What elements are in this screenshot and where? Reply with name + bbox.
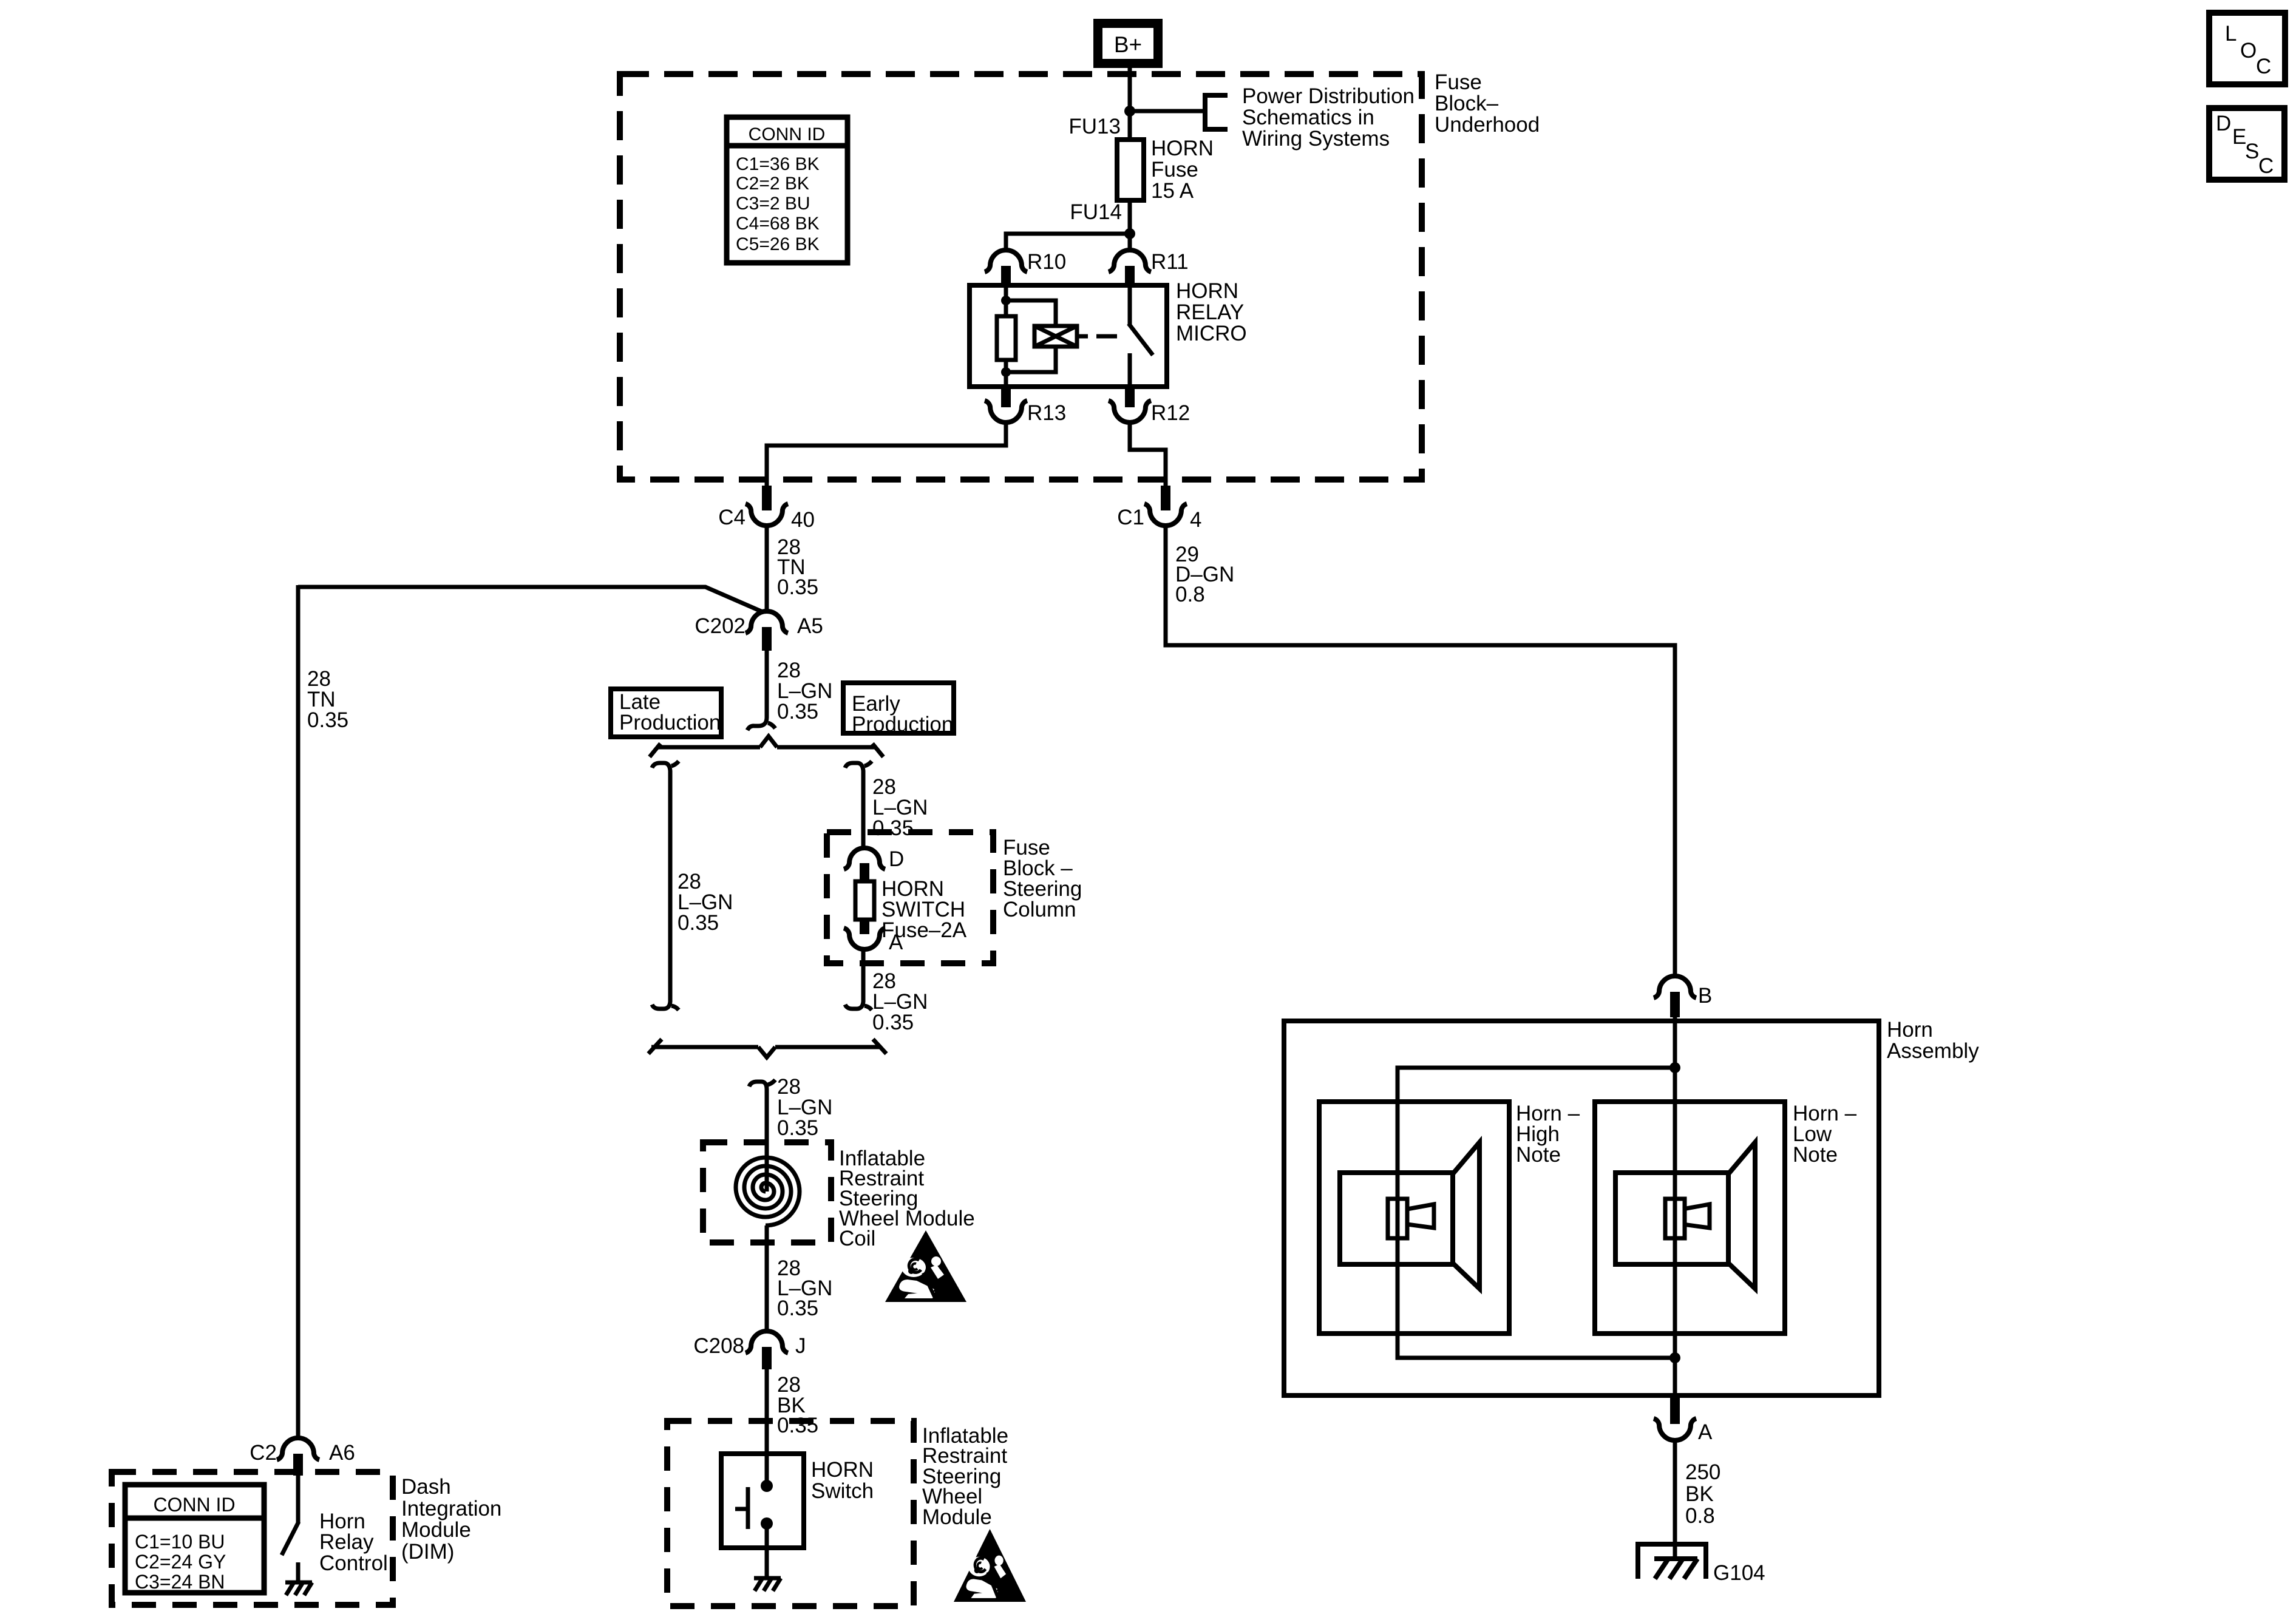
connector id table CONN ID underhood: [727, 117, 847, 263]
svg-text:J: J: [795, 1334, 806, 1358]
svg-text:FU13: FU13: [1068, 115, 1121, 138]
svg-text:0.35: 0.35: [307, 708, 348, 732]
wire label 28 L-GN 0.35 early branch lower: [872, 969, 928, 1034]
svg-text:0.35: 0.35: [777, 1297, 818, 1320]
svg-text:Schematics in: Schematics in: [1242, 106, 1374, 129]
svg-text:C1=36 BK: C1=36 BK: [736, 154, 820, 174]
svg-text:0.35: 0.35: [777, 1116, 818, 1140]
wire label 28 L-GN 0.35 above coil: [777, 1075, 832, 1140]
wire FU14 to R10: [1006, 234, 1130, 251]
svg-text:15 A: 15 A: [1151, 179, 1194, 203]
connector C1 pin 4: [1144, 486, 1187, 526]
svg-text:CONN ID: CONN ID: [749, 124, 826, 144]
svg-text:C3=2 BU: C3=2 BU: [736, 194, 810, 214]
svg-text:0.35: 0.35: [777, 1414, 818, 1437]
armature link stub: [1077, 334, 1088, 339]
horn high note cone: [1453, 1142, 1479, 1289]
svg-text:(DIM): (DIM): [401, 1540, 454, 1564]
wire B+ to fuse FU13 node: [1128, 68, 1132, 140]
wire R13 to C4: [767, 422, 1006, 486]
svg-text:Column: Column: [1003, 898, 1076, 921]
wire high note branch: [1398, 1068, 1675, 1358]
relay coil element: [1034, 326, 1077, 347]
ground chassis horn switch: [754, 1578, 781, 1591]
wire switch to ground: [765, 1524, 769, 1578]
svg-text:D: D: [2216, 112, 2231, 135]
svg-text:C2=2 BK: C2=2 BK: [736, 174, 809, 194]
fuse block steering column dashed box: [827, 832, 993, 963]
svg-text:250: 250: [1685, 1460, 1720, 1484]
wire label 250 BK 0.8: [1685, 1460, 1720, 1528]
svg-text:A: A: [1698, 1420, 1713, 1444]
horn high note driver: [1388, 1199, 1407, 1238]
wire R12 to C1: [1130, 422, 1166, 486]
wire label 29 D-GN 0.8: [1175, 543, 1234, 606]
wire coil branch top: [1006, 300, 1056, 326]
svg-text:B+: B+: [1114, 32, 1142, 57]
svg-text:A5: A5: [797, 614, 823, 638]
svg-text:L: L: [2225, 22, 2237, 46]
svg-text:Note: Note: [1793, 1143, 1838, 1167]
svg-text:R11: R11: [1151, 250, 1189, 274]
svg-text:C202: C202: [695, 614, 746, 638]
reference box LOC: [2209, 13, 2285, 84]
svg-text:FU14: FU14: [1070, 200, 1122, 224]
wire to power distribution reference: [1130, 109, 1205, 114]
relay K1 HORN RELAY MICRO box: [970, 285, 1167, 387]
svg-text:HORN: HORN: [811, 1458, 874, 1482]
ground G104: [1638, 1544, 1706, 1579]
wire C208 to horn switch: [765, 1369, 769, 1486]
svg-text:0.35: 0.35: [777, 575, 818, 599]
switch S1 HORN Switch box: [721, 1454, 804, 1548]
label Horn Assembly: [1887, 1018, 1979, 1063]
armature link dash: [1096, 334, 1117, 339]
svg-text:Module: Module: [922, 1505, 992, 1529]
connector pin D: [844, 848, 885, 883]
wire C2 into DIM: [296, 1476, 301, 1523]
wire fuse to FU14 node: [1128, 200, 1132, 234]
wire C4 to C202: [765, 525, 769, 612]
svg-text:E: E: [2232, 125, 2246, 149]
connector C202 pin A5: [746, 611, 788, 651]
svg-text:Underhood: Underhood: [1435, 113, 1540, 137]
label box Late Production: [611, 689, 721, 737]
svg-text:CONN ID: CONN ID: [153, 1494, 235, 1516]
svg-text:R10: R10: [1027, 250, 1066, 274]
svg-text:A6: A6: [329, 1441, 355, 1465]
relay switch blade: [1129, 324, 1153, 355]
horn high note trumpet: [1407, 1204, 1434, 1228]
svg-text:Block–: Block–: [1435, 92, 1499, 115]
svg-text:C: C: [2256, 55, 2271, 78]
label Fuse Block-Underhood: [1435, 70, 1540, 137]
svg-text:0.35: 0.35: [678, 911, 719, 935]
svg-text:Control: Control: [319, 1551, 388, 1575]
svg-text:4: 4: [1190, 508, 1201, 532]
svg-text:0.35: 0.35: [777, 700, 818, 724]
wire B into assembly: [1673, 1017, 1677, 1068]
svg-text:0.35: 0.35: [872, 1011, 914, 1034]
svg-text:Switch: Switch: [811, 1479, 874, 1503]
wire low note spine: [1673, 1068, 1677, 1395]
wire C202 to production split: [747, 651, 767, 730]
svg-text:Integration: Integration: [401, 1497, 501, 1520]
wire switch output: [1128, 353, 1132, 387]
wire C1 to horn assembly B: [1166, 525, 1675, 977]
steering wheel module coil dashed box: [703, 1142, 831, 1242]
wire label 28 L-GN 0.35 late branch: [678, 870, 733, 935]
junction coil top: [1001, 296, 1011, 305]
svg-text:40: 40: [791, 508, 815, 532]
label Inflatable Restraint Steering Wheel Module: [922, 1424, 1008, 1529]
steering wheel module dashed box: [667, 1421, 914, 1606]
connector pin B horn assembly: [1654, 976, 1696, 1017]
svg-text:MICRO: MICRO: [1176, 322, 1247, 345]
airbag caution triangle near coil: [885, 1230, 966, 1302]
off-page reference bracket: [1205, 95, 1228, 129]
label box Early Production: [843, 683, 954, 736]
wire DIM switch to ground: [296, 1562, 301, 1582]
svg-text:RELAY: RELAY: [1176, 300, 1244, 324]
wire label 28 L-GN 0.35 early branch: [872, 775, 928, 840]
svg-text:G104: G104: [1713, 1561, 1765, 1585]
svg-text:0.8: 0.8: [1175, 583, 1205, 606]
svg-text:Coil: Coil: [839, 1227, 875, 1250]
dash integration module dashed box: [112, 1472, 393, 1605]
junction horn feed bottom: [1669, 1352, 1680, 1363]
wire label 28 L-GN 0.35 below C202: [777, 659, 832, 724]
svg-text:A: A: [889, 931, 903, 954]
production merge brace: [648, 1039, 886, 1057]
svg-text:Production: Production: [852, 713, 953, 736]
svg-text:C1: C1: [1117, 506, 1144, 529]
DIM horn relay control switch blade: [282, 1522, 299, 1555]
junction horn feed top: [1669, 1062, 1680, 1073]
svg-text:Production: Production: [619, 711, 721, 734]
wire label 28 TN 0.35 left: [307, 667, 348, 732]
connector pin A horn assembly: [1654, 1397, 1696, 1440]
svg-text:Wiring Systems: Wiring Systems: [1242, 127, 1390, 151]
horn switch upper contact: [761, 1480, 773, 1492]
svg-text:C2=24 GY: C2=24 GY: [135, 1551, 226, 1573]
wire merge to coil: [749, 1082, 767, 1192]
connector pin R13: [985, 387, 1027, 422]
fuse HORN SWITCH Fuse-2A: [855, 881, 874, 920]
junction coil bottom: [1001, 367, 1011, 377]
wire label 28 TN 0.35: [777, 535, 818, 599]
reference box DESC: [2209, 108, 2284, 180]
horn low note inner box: [1615, 1173, 1728, 1264]
resistor relay internal: [997, 316, 1016, 360]
wire coil branch bottom: [1006, 347, 1056, 372]
svg-text:C3=24 BN: C3=24 BN: [135, 1571, 225, 1593]
value label HORN Fuse 15 A: [1151, 137, 1214, 203]
svg-text:Power Distribution: Power Distribution: [1242, 84, 1415, 108]
label Horn - High Note: [1516, 1102, 1580, 1167]
wire A to G104: [1673, 1440, 1677, 1559]
svg-text:Fuse: Fuse: [1151, 158, 1198, 181]
fuse HORN Fuse 15 A: [1117, 140, 1144, 200]
wire switch common from R11: [1128, 285, 1132, 325]
wire resistor bottom rail: [1004, 360, 1008, 387]
svg-text:Relay: Relay: [319, 1530, 374, 1554]
label HORN Switch: [811, 1458, 874, 1503]
value label HORN SWITCH Fuse-2A: [881, 877, 967, 942]
label Horn Relay Control: [319, 1510, 388, 1575]
label Inflatable Restraint Steering Wheel Module Coil: [839, 1147, 975, 1250]
connector C208 pin J: [746, 1331, 788, 1369]
svg-text:O: O: [2240, 39, 2257, 63]
wire label 28 BK 0.35: [777, 1373, 818, 1437]
horn low note driver: [1665, 1199, 1685, 1238]
production split brace: [650, 736, 883, 757]
svg-text:Assembly: Assembly: [1887, 1039, 1979, 1063]
label Fuse Block - Steering Column: [1003, 836, 1082, 921]
fuse block underhood dashed box: [620, 74, 1422, 480]
wire coil to C208: [765, 1225, 769, 1332]
svg-text:C4=68 BK: C4=68 BK: [736, 214, 820, 234]
svg-text:C4: C4: [718, 506, 746, 529]
connector pin A steering fuse: [844, 918, 885, 949]
connector pin R10: [985, 250, 1027, 285]
svg-text:Module: Module: [401, 1518, 471, 1542]
label Horn - Low Note: [1793, 1102, 1857, 1167]
wire label 28 L-GN 0.35 below coil: [777, 1256, 832, 1320]
connector C4 pin 40: [746, 486, 788, 526]
svg-text:R13: R13: [1027, 401, 1066, 425]
connector id table CONN ID DIM: [125, 1485, 264, 1593]
label Power Distribution Schematics in Wiring Systems: [1242, 84, 1415, 151]
wire early production branch upper: [845, 763, 863, 849]
svg-text:Horn: Horn: [1887, 1018, 1933, 1042]
horn high note inner box: [1340, 1173, 1453, 1264]
svg-text:C2: C2: [250, 1441, 277, 1465]
horn assembly box: [1284, 1021, 1879, 1395]
svg-text:HORN: HORN: [1151, 137, 1214, 160]
label HORN RELAY MICRO: [1176, 279, 1247, 345]
svg-text:R12: R12: [1151, 401, 1190, 425]
coil clockspring spiral: [736, 1158, 800, 1225]
svg-text:0.35: 0.35: [872, 816, 914, 840]
junction FU13 node: [1124, 106, 1135, 117]
connector pin R12: [1109, 387, 1151, 422]
airbag caution triangle near horn switch: [954, 1529, 1026, 1602]
horn low note trumpet: [1683, 1204, 1710, 1228]
svg-text:BK: BK: [1685, 1482, 1714, 1506]
wire relay coil top rail: [1004, 285, 1008, 316]
horn switch lower contact: [761, 1517, 773, 1530]
connector C2 pin A6: [277, 1438, 319, 1476]
svg-text:Note: Note: [1516, 1143, 1561, 1167]
label Dash Integration Module (DIM): [401, 1475, 501, 1564]
svg-text:Dash: Dash: [401, 1475, 451, 1499]
wire FU14 to R11: [1128, 234, 1132, 251]
wire late production branch: [652, 763, 670, 1009]
power node B+: [1093, 19, 1163, 68]
svg-text:C1=10 BU: C1=10 BU: [135, 1531, 225, 1553]
svg-text:C: C: [2258, 154, 2274, 178]
horn low note outer box: [1595, 1102, 1785, 1334]
svg-text:0.8: 0.8: [1685, 1504, 1715, 1528]
svg-text:HORN: HORN: [1176, 279, 1238, 303]
svg-text:C208: C208: [693, 1334, 744, 1358]
svg-text:B: B: [1698, 984, 1712, 1008]
wire early branch lower: [845, 949, 863, 1009]
connector pin R11: [1109, 250, 1151, 285]
svg-text:C5=26 BK: C5=26 BK: [736, 234, 820, 254]
svg-text:D: D: [889, 847, 904, 871]
horn high note outer box: [1319, 1102, 1509, 1334]
svg-text:Fuse: Fuse: [1435, 70, 1482, 94]
svg-text:S: S: [2245, 140, 2259, 163]
horn switch plunger: [735, 1487, 748, 1529]
wire horn relay control to C2: [296, 585, 301, 1439]
ground chassis DIM: [285, 1582, 312, 1595]
junction FU14 node: [1124, 228, 1135, 239]
wire DIM feed horizontal: [298, 587, 763, 612]
horn low note cone: [1728, 1142, 1755, 1289]
